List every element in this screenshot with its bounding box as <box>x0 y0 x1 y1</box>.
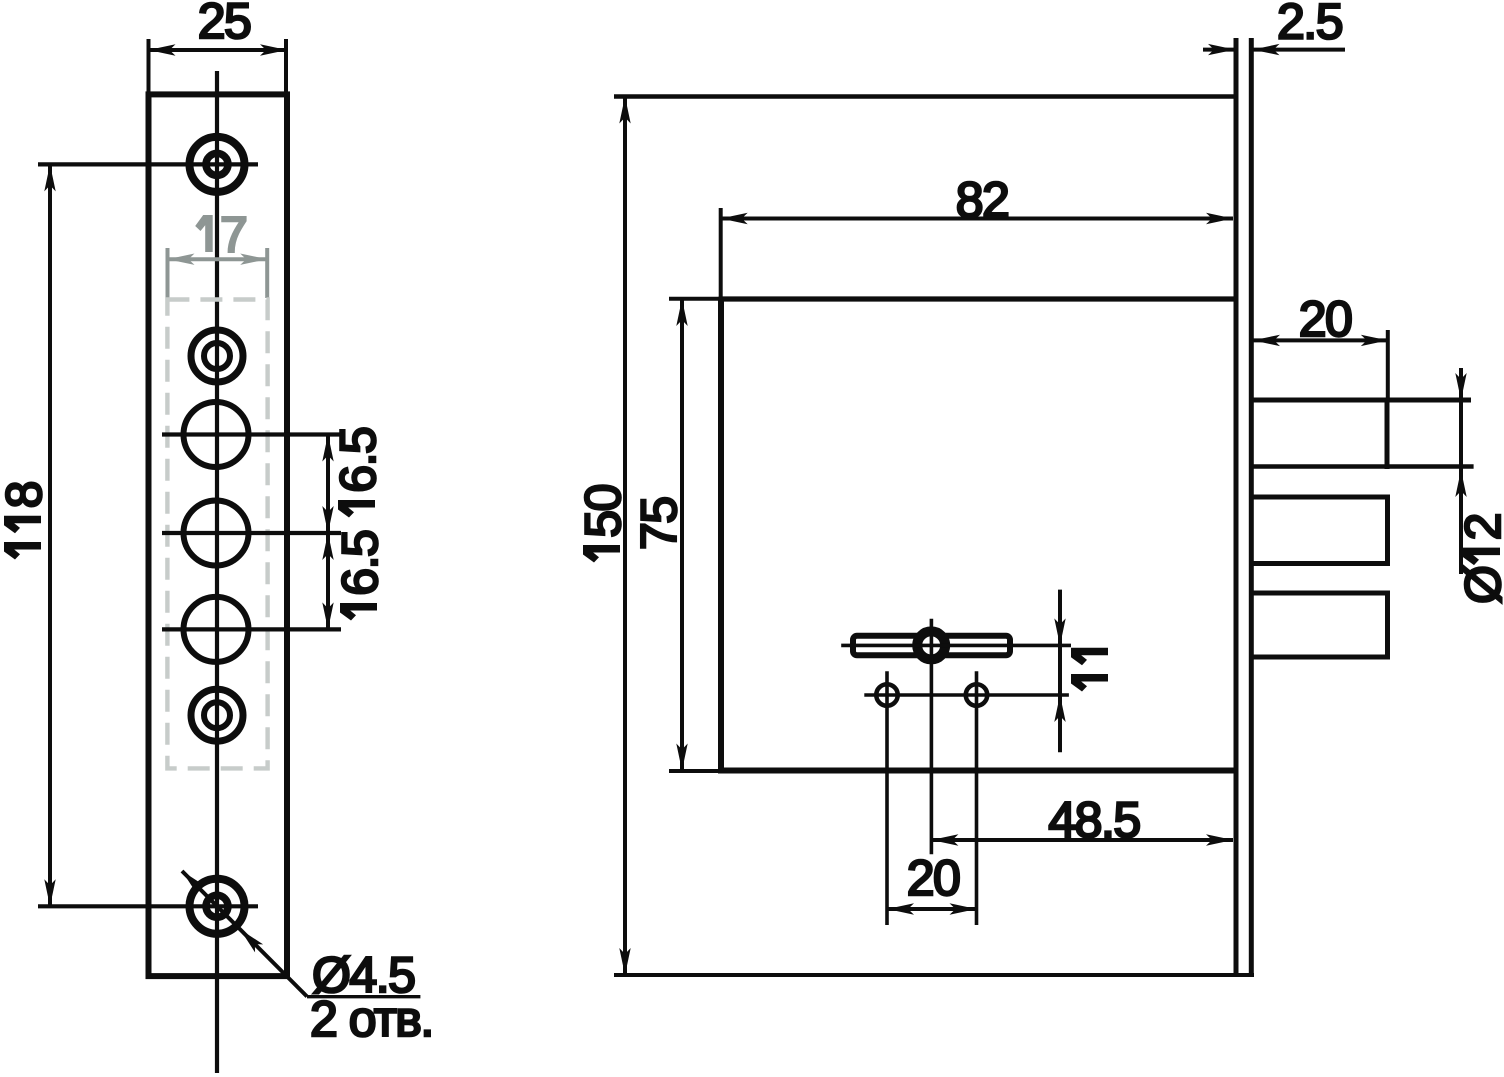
hole H1 inner circle <box>206 153 228 175</box>
svg-text:2 отв.: 2 отв. <box>310 991 433 1047</box>
leader line for hole note <box>182 871 307 997</box>
bolt B1 top edge with extension <box>1251 398 1471 403</box>
key lever bar outline <box>853 636 1010 656</box>
svg-text:2.5: 2.5 <box>1277 0 1342 50</box>
fixing screw S2 circle <box>966 684 988 706</box>
bolt B1 bottom edge with extension <box>1251 464 1474 469</box>
faceplate right line <box>1249 38 1254 977</box>
dimension 16.5 lower: arrows <box>322 533 333 560</box>
dimension 17 (gray): arrows <box>168 254 195 265</box>
dimension 17 (gray): right extension line <box>265 248 269 298</box>
dimension 16.5 upper: label <box>330 428 386 518</box>
dimension 25: right arrow <box>260 44 287 55</box>
svg-text:82: 82 <box>956 172 1009 228</box>
dimension 20 bolt: extension line <box>1386 330 1390 400</box>
svg-text:50: 50 <box>575 485 631 538</box>
dimension 48.5: dimension line <box>931 838 1233 842</box>
dimension 75: dimension line <box>680 299 684 771</box>
faceplate left line <box>1234 38 1239 977</box>
inner body box top edge extension <box>669 297 721 301</box>
hole H2 outer circle <box>191 330 243 382</box>
dimension 82: arrows <box>721 213 748 224</box>
svg-text:2: 2 <box>1455 514 1504 540</box>
hole H4 centerline <box>162 531 341 535</box>
dimension 16.5 upper: dimension line <box>326 435 330 534</box>
dimension 20 bolt: arrows <box>1253 335 1280 346</box>
inner body box top edge <box>719 296 1237 301</box>
bolt B3 bottom edge <box>1251 655 1388 660</box>
svg-text:20: 20 <box>1299 291 1352 347</box>
svg-text:20: 20 <box>907 850 960 906</box>
dimension 11: dimension line <box>1058 590 1062 753</box>
key lever hub ring <box>917 631 945 659</box>
svg-text:Ø: Ø <box>1455 566 1504 604</box>
fixing screw S1 circle <box>876 684 898 706</box>
dimension 20 screws: dimension line <box>887 907 977 911</box>
dimension 17 (gray): dimension line <box>168 257 268 261</box>
dimension 20 bolt: dimension line <box>1253 338 1388 342</box>
hole H5 circle <box>184 597 249 662</box>
plate outline <box>149 94 288 976</box>
svg-text:8: 8 <box>0 482 52 508</box>
body bottom edge <box>614 973 1254 977</box>
svg-text:7: 7 <box>220 207 246 263</box>
dimension 11: label <box>1071 648 1108 692</box>
hole H7 centerline <box>38 904 258 908</box>
hole H6 inner circle <box>204 702 230 728</box>
dimension 48.5: arrows <box>931 834 958 845</box>
inner body box bottom edge extension <box>669 769 721 773</box>
dimension 150: arrows <box>619 97 630 124</box>
dimension 2.5: left arrow line <box>1203 48 1235 52</box>
dimension 20 screws: arrows <box>887 903 914 914</box>
plate vertical centerline <box>215 71 219 1073</box>
dimension 25: right extension line <box>284 39 288 94</box>
hole H3 centerline <box>162 432 341 436</box>
fixing screw S1 vertical centerline <box>885 671 889 925</box>
svg-text:6.5: 6.5 <box>330 428 386 493</box>
dimension 118: dimension line <box>48 164 52 906</box>
bolt B1 right edge <box>1385 398 1390 470</box>
svg-text:75: 75 <box>631 497 687 550</box>
fixing screw S2 vertical centerline <box>975 671 979 925</box>
dimension 25: left extension line <box>147 39 151 94</box>
hole H1 outer circle <box>190 137 245 192</box>
svg-text:6.5: 6.5 <box>332 531 388 596</box>
body top edge <box>614 94 1237 99</box>
dimension 150: label <box>575 485 631 562</box>
key lever vertical centerline <box>930 619 934 855</box>
bolt B2 right edge <box>1385 495 1390 567</box>
hole H2 inner circle <box>204 343 230 369</box>
inner body box bottom edge <box>718 768 1237 774</box>
dimension 17 (gray): label <box>195 215 213 252</box>
dimension 2.5: right arrow line <box>1253 48 1346 52</box>
bolt B3 top edge <box>1251 591 1388 596</box>
dimension 118: arrows <box>44 164 55 191</box>
dimension 17 (gray): left extension line <box>166 248 170 298</box>
leader arrowhead at hole edge <box>236 925 263 952</box>
bolt B3 right edge <box>1385 591 1390 660</box>
dimension 150: dimension line <box>623 97 627 976</box>
hole H7 inner circle <box>206 895 228 917</box>
dashed lock-body outline (hidden contour) <box>167 300 267 769</box>
hole H3 circle <box>184 402 249 467</box>
svg-text:48.5: 48.5 <box>1048 792 1139 848</box>
key lever horizontal centerline <box>841 644 1071 648</box>
leader arrowhead at end <box>178 867 205 894</box>
dimension 118: label <box>0 482 52 559</box>
hole H6 outer circle <box>191 689 243 741</box>
hole H5 centerline <box>162 627 341 631</box>
dimension 25: left arrow <box>149 44 176 55</box>
hole H1 centerline <box>38 162 258 166</box>
leader underline <box>307 995 420 998</box>
dimension 82: dimension line <box>721 217 1233 221</box>
dimension 82: extension line <box>719 208 723 299</box>
fixing screws centerline <box>864 693 1069 697</box>
inner body box left edge <box>718 299 724 771</box>
dimension diameter 12: label <box>1455 514 1504 604</box>
dimension 16.5 lower: dimension line <box>326 533 330 629</box>
hole H4 circle <box>184 501 249 566</box>
bolt B2 top edge <box>1251 495 1388 500</box>
dimension 75: arrows <box>676 299 687 326</box>
hole H7 outer circle <box>190 879 245 934</box>
dimension diameter 12: dimension line <box>1459 368 1463 574</box>
svg-text:25: 25 <box>198 0 251 49</box>
dimension diameter 12: arrows <box>1455 373 1466 400</box>
dimension 25: dimension line <box>149 48 288 52</box>
dimension 16.5 lower: label <box>332 531 388 621</box>
bolt B2 bottom edge <box>1251 561 1388 566</box>
dimension 16.5 upper: arrows <box>322 435 333 462</box>
dimension 11: arrows <box>1054 618 1065 645</box>
